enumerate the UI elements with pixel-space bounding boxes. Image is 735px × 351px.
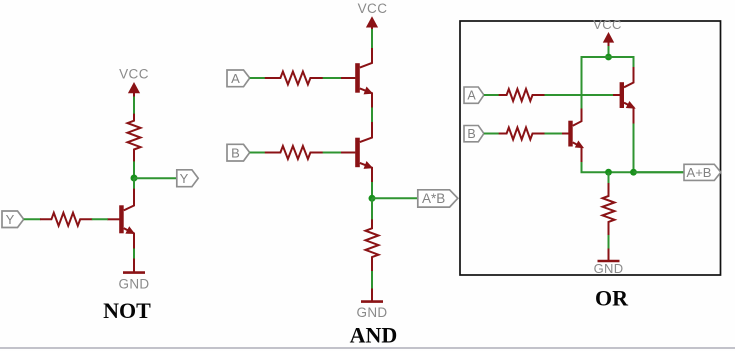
- node Yout junction: [131, 175, 138, 182]
- power VCC (OR) arrow symbol: [603, 32, 614, 47]
- resistor R2 (NOT base): [40, 213, 92, 226]
- wire R7 to Q5 base: [545, 133, 563, 135]
- svg-text:GND: GND: [357, 305, 388, 320]
- transistor Q3 (AND lower, NPN): [341, 122, 373, 183]
- node A*B junction: [369, 195, 376, 202]
- wire left collector branch: [581, 56, 583, 109]
- wire Q1 emitter to ground: [133, 249, 135, 260]
- resistor R3 (AND input A): [265, 72, 323, 85]
- svg-text:VCC: VCC: [358, 1, 388, 16]
- transistor Q5 (OR left, NPN input B): [562, 109, 584, 163]
- wire VCC to R1: [133, 97, 135, 115]
- port A+B (OR output pin): [684, 164, 721, 180]
- power VCC (AND) label: [358, 1, 388, 16]
- wire pin B to R7: [484, 133, 500, 135]
- svg-text:GND: GND: [119, 277, 150, 292]
- frame box around OR schematic: [460, 21, 721, 275]
- ground GND (OR): [594, 249, 624, 276]
- resistor R7 (OR input B): [499, 128, 545, 140]
- svg-text:B: B: [467, 127, 475, 141]
- node VCC rail junction: [605, 54, 612, 61]
- wire R1 to node Yout: [133, 161, 135, 178]
- wire node to output pin A+B: [634, 171, 685, 173]
- port B (OR input pin): [464, 126, 484, 142]
- svg-text:A: A: [467, 89, 476, 103]
- node emitter rail junction 1: [605, 169, 612, 176]
- svg-text:NOT: NOT: [103, 298, 151, 323]
- svg-text:OR: OR: [595, 286, 629, 311]
- wire node to Q1 collector: [133, 178, 135, 190]
- svg-text:VCC: VCC: [593, 17, 622, 32]
- wire R8 to ground: [608, 235, 610, 249]
- ground GND (NOT): [119, 259, 150, 292]
- wire pin Y to R2: [24, 218, 41, 220]
- wire node to output pin Y: [134, 177, 177, 179]
- wire node to output pin A*B: [372, 197, 418, 199]
- wire VCC to top rail: [608, 46, 610, 57]
- power VCC (OR) label: [593, 17, 622, 32]
- transistor Q2 (AND upper, NPN): [341, 48, 373, 108]
- wire R2 to Q1 base: [92, 218, 108, 220]
- wire R3 to Q2 base: [323, 77, 341, 79]
- wire Q4 emitter to bottom rail: [633, 124, 635, 173]
- resistor R6 (OR input A): [499, 89, 545, 101]
- wire pin A to R3: [250, 77, 266, 79]
- wire VCC to Q2 collector: [371, 29, 373, 49]
- wire R5 to ground: [371, 271, 373, 289]
- wire R4 to Q3 base: [323, 152, 341, 154]
- svg-text:VCC: VCC: [119, 67, 149, 82]
- resistor R1 (NOT pull-up): [128, 114, 141, 162]
- wire right collector branch: [633, 56, 635, 68]
- svg-text:Y: Y: [180, 171, 189, 186]
- transistor Q1 (NOT, NPN): [107, 189, 134, 249]
- wire node to R5: [371, 198, 373, 220]
- wire Q2 emitter to Q3 collector: [371, 108, 373, 123]
- svg-text:GND: GND: [594, 261, 624, 276]
- svg-text:A+B: A+B: [687, 165, 712, 180]
- wire pin A to R6: [484, 94, 500, 96]
- port Y (NOT input pin): [2, 211, 24, 228]
- power VCC (NOT) label: [119, 67, 149, 82]
- power VCC (AND) arrow symbol: [366, 16, 378, 29]
- wire pin B to R4: [250, 152, 266, 154]
- wire node to R8: [608, 172, 610, 183]
- svg-text:AND: AND: [350, 323, 398, 348]
- transistor Q4 (OR right, NPN input A): [613, 67, 635, 124]
- wire R6 to Q4 base (crosses left branch, no junction): [545, 94, 614, 96]
- node emitter rail junction 2: [630, 169, 637, 176]
- power VCC (NOT) arrow symbol: [128, 82, 140, 97]
- wire bottom rail: [582, 171, 685, 172]
- resistor R5 (AND pull-down): [366, 219, 379, 271]
- port A*B (AND output pin): [418, 190, 458, 207]
- port A (OR input pin): [464, 87, 484, 103]
- ground GND (AND): [357, 289, 388, 321]
- wire Q5 emitter down to bottom rail: [581, 162, 583, 172]
- resistor R8 (OR pull-down): [603, 183, 615, 236]
- window bottom edge line: [0, 347, 735, 349]
- port A (AND input pin): [227, 70, 250, 87]
- svg-text:A*B: A*B: [422, 191, 445, 206]
- wire top rail: [582, 56, 634, 58]
- resistor R4 (AND input B): [265, 146, 323, 159]
- wire Q3 emitter to node A*B: [371, 182, 373, 198]
- port Y (NOT output pin): [177, 170, 198, 187]
- port B (AND input pin): [227, 144, 250, 161]
- svg-text:Y: Y: [6, 212, 15, 227]
- svg-text:B: B: [231, 146, 240, 161]
- svg-text:A: A: [231, 71, 240, 86]
